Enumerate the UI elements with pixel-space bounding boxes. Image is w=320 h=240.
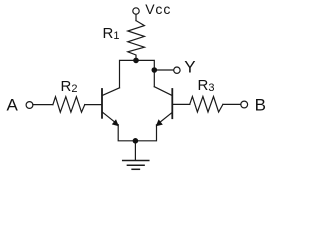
svg-text:B: B — [255, 95, 266, 114]
svg-text:Vcc: Vcc — [145, 1, 171, 17]
svg-text:Y: Y — [184, 57, 195, 76]
svg-text:A: A — [7, 95, 19, 114]
